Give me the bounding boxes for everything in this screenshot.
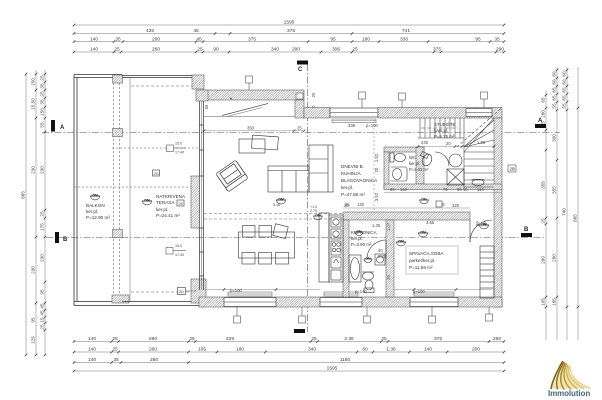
dimension row bottom-3	[73, 357, 506, 364]
svg-text:1.07: 1.07	[386, 222, 391, 231]
svg-text:130: 130	[357, 202, 365, 207]
svg-text:95: 95	[31, 317, 36, 323]
dimension col left-3	[40, 70, 47, 356]
lamp bathroom2	[364, 257, 373, 262]
svg-text:p=100: p=100	[230, 288, 242, 293]
svg-text:A: A	[538, 118, 543, 124]
svg-text:P=12.90 m²: P=12.90 m²	[86, 215, 110, 220]
lamp hall	[419, 198, 429, 203]
svg-text:TERASA: TERASA	[156, 200, 175, 205]
svg-text:140: 140	[90, 47, 98, 53]
section marker C bottom	[294, 329, 305, 333]
lamp bathroom	[355, 230, 364, 235]
wall WC left	[384, 152, 389, 189]
svg-text:60: 60	[552, 71, 557, 77]
svg-text:WC: WC	[409, 155, 416, 160]
svg-text:300: 300	[552, 134, 557, 142]
room label BALKON	[86, 203, 110, 220]
svg-text:260: 260	[149, 336, 157, 342]
section marker B right	[521, 227, 532, 237]
svg-text:Immolution: Immolution	[548, 389, 590, 398]
svg-text:260: 260	[152, 47, 160, 53]
svg-text:25: 25	[40, 91, 45, 97]
terrace roof dashed line horizontal	[74, 148, 200, 187]
svg-text:355: 355	[541, 181, 546, 189]
window bottom living	[224, 298, 276, 307]
bathroom small dim	[372, 223, 386, 259]
svg-text:1595: 1595	[327, 366, 338, 372]
section marker B left	[55, 232, 68, 243]
svg-text:230: 230	[40, 254, 45, 262]
svg-text:SPAVAĆA SOBA: SPAVAĆA SOBA	[409, 250, 444, 256]
svg-text:140: 140	[88, 336, 96, 342]
svg-text:2.36: 2.36	[344, 336, 354, 342]
door label hall	[436, 201, 442, 207]
corridor dashed line	[373, 120, 375, 212]
hall dim line	[343, 193, 502, 209]
svg-text:1.52: 1.52	[374, 153, 379, 162]
svg-text:1160: 1160	[340, 357, 351, 363]
stair dims	[421, 140, 486, 146]
wardrobe	[480, 246, 494, 298]
svg-text:260: 260	[152, 36, 160, 42]
svg-text:25: 25	[311, 92, 316, 97]
coffee table	[239, 135, 278, 153]
svg-text:245: 245	[421, 140, 429, 145]
lamp terrace	[142, 199, 152, 205]
svg-text:230: 230	[40, 166, 45, 174]
svg-text:2D: 2D	[154, 171, 159, 176]
svg-text:35: 35	[40, 83, 45, 89]
svg-text:A: A	[60, 125, 65, 131]
radiator bedroom window	[414, 292, 454, 296]
lamp living	[276, 198, 286, 204]
radiator dining window	[324, 292, 358, 296]
tag box terrace label	[153, 170, 160, 176]
window bottom dining	[320, 298, 362, 307]
svg-text:290: 290	[496, 47, 504, 53]
svg-text:375: 375	[287, 28, 295, 34]
hall dimension texts	[345, 187, 484, 208]
wall step at axis C	[295, 100, 304, 118]
svg-text:95: 95	[475, 36, 481, 42]
svg-text:65: 65	[541, 97, 546, 103]
svg-text:1595: 1595	[284, 20, 295, 26]
svg-text:375: 375	[248, 36, 256, 42]
kitchen counter	[319, 213, 343, 282]
svg-text:95: 95	[40, 289, 45, 295]
dimension row top-3	[73, 36, 506, 43]
svg-text:150: 150	[40, 108, 45, 116]
svg-text:60: 60	[562, 71, 567, 77]
sofa L-shaped	[268, 145, 333, 192]
wall left top corner block	[196, 90, 208, 101]
svg-text:55: 55	[204, 104, 209, 109]
lamp balcony	[90, 194, 100, 200]
svg-text:28: 28	[386, 275, 391, 280]
svg-text:B: B	[63, 237, 68, 243]
dimension col right-2	[552, 67, 559, 340]
wall under WC and shower	[384, 184, 502, 190]
svg-text:340: 340	[308, 347, 316, 353]
svg-text:P=5.75 m²: P=5.75 m²	[434, 134, 455, 139]
svg-text:45: 45	[40, 303, 45, 309]
window bottom bedroom	[410, 298, 458, 307]
svg-text:325: 325	[452, 203, 460, 208]
window right wall	[466, 109, 492, 117]
svg-text:280: 280	[541, 110, 546, 118]
svg-text:306: 306	[332, 47, 340, 53]
section marker C top	[297, 61, 308, 74]
wall top-right section east part	[378, 108, 502, 119]
svg-text:1.35: 1.35	[372, 223, 381, 228]
svg-text:parket/ker.pl.: parket/ker.pl.	[409, 258, 435, 263]
stair dim line	[418, 146, 494, 148]
section marker A left	[51, 120, 65, 132]
svg-text:55: 55	[40, 122, 45, 128]
svg-text:95: 95	[330, 36, 336, 42]
wall bathroom left	[343, 220, 349, 297]
svg-text:B: B	[524, 227, 529, 233]
svg-text:110: 110	[477, 187, 484, 192]
svg-text:20: 20	[446, 141, 451, 146]
svg-text:25: 25	[197, 47, 203, 53]
svg-text:15.0: 15.0	[175, 244, 182, 248]
svg-text:25: 25	[40, 324, 45, 330]
svg-text:2E: 2E	[178, 201, 183, 206]
svg-text:25: 25	[311, 336, 317, 342]
room label living	[341, 164, 378, 197]
bedroom door swing	[470, 220, 492, 242]
svg-text:435: 435	[146, 28, 154, 34]
washbasin bathroom	[362, 272, 374, 280]
dimension row top-2	[73, 28, 506, 35]
svg-text:25: 25	[344, 203, 349, 208]
svg-text:3.55: 3.55	[426, 220, 435, 225]
svg-text:2.70: 2.70	[310, 209, 317, 213]
svg-text:P=24.41 m²: P=24.41 m²	[156, 213, 180, 218]
svg-text:350: 350	[247, 125, 255, 130]
axis B-B horizontal	[46, 237, 545, 239]
svg-text:ker.pl.: ker.pl.	[156, 207, 168, 212]
svg-text:25: 25	[541, 218, 546, 224]
svg-text:25: 25	[40, 211, 45, 217]
under-stair door swing	[435, 152, 449, 166]
svg-text:55: 55	[552, 103, 557, 109]
svg-text:75: 75	[443, 187, 448, 192]
svg-text:105: 105	[541, 298, 546, 306]
washing machine	[375, 254, 385, 265]
svg-text:338: 338	[348, 123, 356, 128]
wall WC right	[416, 147, 424, 184]
svg-text:5.16: 5.16	[273, 203, 280, 207]
svg-text:105: 105	[198, 347, 206, 353]
svg-text:429: 429	[226, 336, 234, 342]
room label KUPAONICA	[351, 230, 377, 247]
svg-text:336: 336	[400, 36, 408, 42]
immolution logo	[548, 362, 590, 399]
svg-text:65: 65	[562, 87, 567, 93]
svg-text:60: 60	[552, 79, 557, 85]
stair walk arrow	[421, 127, 458, 129]
bathroom door swing	[367, 240, 386, 259]
svg-text:25: 25	[112, 336, 118, 342]
svg-text:140: 140	[88, 357, 96, 363]
dimension col left-1 total 865	[21, 73, 28, 357]
svg-text:375: 375	[434, 336, 442, 342]
svg-text:35: 35	[40, 99, 45, 105]
level symbol terrace lower	[166, 248, 186, 255]
balcony outline	[74, 75, 122, 306]
svg-text:25: 25	[112, 347, 118, 353]
svg-text:375: 375	[433, 47, 441, 53]
glazed wall left (to terrace)	[200, 101, 204, 290]
svg-text:865: 865	[573, 214, 578, 222]
wall bottom exterior	[199, 297, 502, 307]
svg-text:BALKON: BALKON	[86, 203, 105, 208]
wall tag boxes	[296, 93, 516, 172]
svg-text:25: 25	[297, 125, 302, 130]
door label terrace	[178, 288, 186, 295]
parapet dim line above bottom windows	[205, 289, 492, 291]
room WC fixtures	[390, 153, 407, 181]
svg-text:60: 60	[562, 79, 567, 85]
section marker A right	[535, 118, 546, 128]
window dim line top-left	[204, 130, 304, 132]
svg-text:740: 740	[562, 208, 567, 216]
svg-text:1.36: 1.36	[386, 347, 396, 353]
svg-text:2B: 2B	[510, 167, 516, 172]
svg-text:60: 60	[362, 347, 368, 353]
room label STUBISTE	[434, 122, 456, 139]
svg-text:55 10: 55 10	[457, 187, 468, 192]
axis C-C vertical	[307, 64, 309, 332]
svg-text:35: 35	[115, 36, 121, 42]
svg-text:P=3.90 m²: P=3.90 m²	[351, 242, 372, 247]
dimension row bottom-2	[73, 347, 506, 354]
staircase STUBISTE treads	[418, 108, 502, 190]
axis A-A horizontal	[42, 132, 560, 134]
svg-text:65: 65	[552, 95, 557, 101]
svg-text:25: 25	[40, 75, 45, 81]
svg-text:85: 85	[390, 187, 395, 192]
dimension row top-4	[73, 47, 506, 54]
bathtub	[349, 255, 361, 282]
svg-text:865: 865	[21, 191, 26, 199]
svg-text:P=11.58 m²: P=11.58 m²	[409, 265, 433, 270]
wall bathroom-bedroom divider	[386, 220, 394, 297]
svg-text:C: C	[298, 67, 303, 73]
svg-text:ker.pl.: ker.pl.	[409, 161, 420, 166]
radiator living window	[228, 292, 272, 296]
svg-text:STUBIŠTE: STUBIŠTE	[434, 122, 456, 127]
svg-text:355: 355	[552, 186, 557, 194]
column balcony bottom	[112, 295, 129, 303]
shower circle and tray under stairs	[447, 154, 485, 186]
svg-text:kam.pl.: kam.pl.	[434, 128, 448, 133]
svg-text:140: 140	[88, 347, 96, 353]
under-stair toilet	[420, 151, 433, 167]
wall right exterior	[494, 118, 502, 307]
svg-text:65: 65	[562, 95, 567, 101]
svg-text:290: 290	[292, 47, 300, 53]
svg-text:150: 150	[31, 78, 36, 86]
svg-text:185: 185	[552, 298, 557, 306]
column balcony top	[113, 75, 123, 83]
svg-text:ker.pl.: ker.pl.	[86, 209, 98, 214]
svg-text:ker.pl.: ker.pl.	[341, 185, 353, 190]
svg-text:25: 25	[189, 336, 195, 342]
wall left mid pier	[191, 176, 200, 228]
wall interior horizontal (hall/bath/bedroom)	[343, 212, 470, 220]
lamp bedroom1	[418, 231, 428, 237]
terrace outline	[122, 76, 199, 306]
svg-text:3.52: 3.52	[374, 192, 379, 201]
svg-text:25: 25	[381, 336, 387, 342]
svg-text:140: 140	[424, 347, 432, 353]
window opening diagonal below top-left wall	[204, 98, 295, 117]
wall top-right section west part	[304, 108, 330, 119]
svg-text:BLAGOVAONICA: BLAGOVAONICA	[341, 178, 378, 183]
corridor rotated dims	[374, 153, 379, 201]
column balcony axis-A	[113, 129, 123, 137]
step wall rotated dims	[204, 92, 316, 112]
svg-text:140: 140	[90, 36, 98, 42]
svg-text:17.40: 17.40	[175, 253, 184, 257]
column terrace bottom-right	[191, 279, 206, 303]
room label NATKRIVENA TERASA	[156, 194, 186, 218]
lamp bedroom2	[396, 240, 406, 246]
svg-text:230: 230	[31, 166, 36, 174]
svg-text:p=100: p=100	[413, 289, 425, 294]
svg-text:200: 200	[472, 347, 480, 353]
bedroom inner rect	[406, 246, 458, 274]
room label WC	[409, 155, 429, 172]
svg-text:260: 260	[149, 347, 157, 353]
svg-text:55: 55	[562, 103, 567, 109]
svg-text:180: 180	[236, 347, 244, 353]
room label SPAVACA SOBA	[409, 250, 444, 270]
svg-text:45: 45	[196, 36, 202, 42]
svg-text:17.40: 17.40	[175, 151, 184, 155]
svg-text:40: 40	[378, 248, 383, 253]
svg-text:150: 150	[400, 187, 408, 192]
svg-text:15,50: 15,50	[31, 98, 36, 110]
svg-text:340: 340	[271, 47, 279, 53]
svg-text:65: 65	[552, 87, 557, 93]
toilet bathroom	[364, 280, 374, 293]
svg-text:230: 230	[31, 266, 36, 274]
wall WC top	[384, 147, 424, 152]
dimension row top-1 total 1595	[73, 20, 506, 27]
terrace roof dashed line	[131, 86, 200, 292]
symbols below bottom wall	[234, 307, 493, 323]
dimension row bottom-4 total 1595	[73, 366, 506, 373]
svg-text:15.0: 15.0	[175, 142, 182, 146]
balcony inner dashed edge	[114, 83, 120, 295]
dimension row bottom-1	[73, 336, 506, 343]
svg-text:45: 45	[193, 28, 199, 34]
svg-text:200: 200	[378, 254, 386, 259]
terrace level symbol	[167, 145, 187, 152]
svg-text:90: 90	[213, 47, 219, 53]
svg-text:25: 25	[114, 47, 120, 53]
armchair	[216, 160, 248, 192]
svg-text:280: 280	[552, 254, 557, 262]
svg-text:25: 25	[352, 47, 358, 53]
svg-text:35: 35	[494, 36, 500, 42]
svg-text:p=100: p=100	[366, 123, 378, 128]
dimension col right-4 total 865	[573, 67, 580, 340]
svg-text:DNEVNI B.: DNEVNI B.	[341, 164, 364, 169]
bedroom dim texts	[386, 220, 487, 280]
svg-text:280: 280	[541, 256, 546, 264]
vent symbols above top wall	[246, 76, 488, 108]
svg-text:180: 180	[362, 36, 370, 42]
svg-text:p=140: p=140	[355, 289, 367, 294]
svg-text:175: 175	[40, 223, 45, 231]
svg-text:P=3.03 m²: P=3.03 m²	[409, 167, 429, 172]
tag box glazed wall	[177, 200, 184, 206]
svg-text:ker.pl.: ker.pl.	[351, 236, 363, 241]
svg-text:15: 15	[40, 317, 45, 323]
svg-text:2D: 2D	[179, 289, 184, 294]
dimension col right-1	[541, 90, 548, 340]
svg-text:250: 250	[493, 336, 501, 342]
svg-text:125: 125	[31, 336, 36, 344]
svg-text:260: 260	[150, 357, 158, 363]
wall top-left section	[203, 90, 304, 100]
svg-text:741: 741	[402, 28, 410, 34]
svg-text:35: 35	[113, 357, 119, 363]
column balcony axis-B	[113, 230, 123, 238]
window top-right 338	[330, 108, 378, 123]
living interior dim texts	[230, 123, 425, 294]
svg-text:NATKRIVENA: NATKRIVENA	[156, 194, 186, 199]
dimension col right-3	[562, 67, 569, 340]
dimension col left-2	[31, 70, 38, 356]
ceiling dashed lines living	[204, 214, 343, 220]
dining table	[239, 224, 295, 264]
svg-text:20: 20	[374, 167, 379, 172]
svg-text:KUHINJA: KUHINJA	[341, 171, 362, 176]
lamp dining	[313, 214, 323, 219]
lamp bedroom3	[479, 223, 489, 229]
column terrace top-right	[192, 75, 204, 89]
level text near axis C	[310, 205, 317, 213]
svg-text:P=47.86 m²: P=47.86 m²	[341, 192, 365, 197]
svg-text:1.90: 1.90	[477, 140, 486, 145]
svg-text:45: 45	[40, 310, 45, 316]
